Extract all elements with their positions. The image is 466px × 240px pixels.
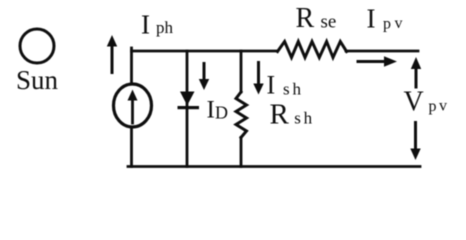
svg-text:I: I: [367, 4, 376, 34]
svg-text:p: p: [383, 16, 391, 33]
svg-text:I: I: [267, 71, 276, 100]
svg-text:V: V: [404, 87, 424, 118]
svg-text:h: h: [304, 108, 313, 127]
svg-text:se: se: [321, 12, 337, 33]
svg-text:Sun: Sun: [16, 65, 59, 95]
svg-text:I: I: [141, 10, 150, 40]
svg-text:v: v: [395, 15, 403, 32]
svg-text:D: D: [215, 103, 228, 123]
svg-text:ph: ph: [156, 18, 174, 37]
svg-text:s: s: [283, 80, 290, 99]
svg-text:R: R: [270, 98, 290, 130]
svg-text:h: h: [293, 80, 302, 99]
svg-text:s: s: [294, 108, 301, 127]
svg-text:I: I: [207, 97, 215, 124]
svg-text:p: p: [429, 98, 437, 115]
svg-text:v: v: [439, 98, 447, 115]
svg-text:R: R: [296, 3, 315, 34]
